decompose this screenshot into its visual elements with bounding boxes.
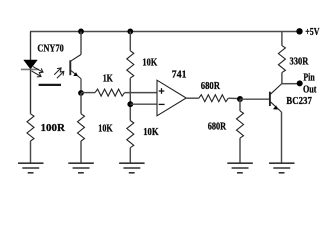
reflective surface bar <box>39 84 61 86</box>
wire: rail to 10K top <box>129 32 131 51</box>
resistor 10K (bottom middle) <box>127 121 134 148</box>
op-amp U1 741 triangle <box>157 80 186 116</box>
LED emission arrow 2 <box>32 71 42 77</box>
wire: 1K to op-amp + input <box>125 92 157 94</box>
wire: LED cathode to 100R <box>30 69 32 113</box>
wire: to ground <box>80 141 82 163</box>
svg-text:680R: 680R <box>208 122 227 133</box>
svg-text:+5V: +5V <box>305 27 320 38</box>
wire: 10K top down through + crossing to - node <box>129 78 131 120</box>
node: +5V terminal dot <box>296 28 302 34</box>
svg-text:10K: 10K <box>143 127 159 138</box>
svg-text:Pin: Pin <box>303 73 314 84</box>
wire: node to 680R shunt <box>239 99 241 111</box>
ground G2 <box>68 163 94 173</box>
ground G5 <box>269 163 295 173</box>
wire: node to BC237 base <box>240 98 269 100</box>
wire: pin out stub <box>282 83 297 85</box>
node: emitter junction <box>78 90 84 96</box>
wire: +5V top rail <box>30 31 299 33</box>
resistor 100R <box>27 114 34 141</box>
wire: rail to 330R <box>281 32 283 46</box>
svg-text:741: 741 <box>172 70 187 81</box>
svg-text:10K: 10K <box>142 57 158 68</box>
svg-text:100R: 100R <box>41 123 66 134</box>
svg-text:330R: 330R <box>290 56 309 67</box>
LED of CNY70 (emitter diode) <box>24 60 38 69</box>
wire: to ground <box>129 148 131 163</box>
wire: 1K row from emitter junction <box>81 92 95 94</box>
LED emission arrow 1 <box>33 67 43 73</box>
wire: collector drop <box>80 32 82 55</box>
ground G1 <box>18 163 44 173</box>
Q2 emitter arrowhead <box>273 105 278 109</box>
svg-text:1K: 1K <box>103 74 114 85</box>
light arrow 2 into Q1 <box>57 71 64 78</box>
node: Pin Out terminal dot <box>297 80 303 86</box>
node: divider junction <box>237 96 243 102</box>
svg-text:BC237: BC237 <box>286 96 312 107</box>
wire: 330R to collector tee <box>281 73 283 84</box>
node: rail junction to 10K top <box>127 29 133 35</box>
transistor Q2 BC237 <box>270 84 282 112</box>
resistor 330R <box>278 46 285 73</box>
svg-text:10K: 10K <box>98 123 113 134</box>
wire: 100R to ground <box>30 141 32 163</box>
op-amp - input sign <box>159 103 165 105</box>
LED cathode bar <box>21 68 39 70</box>
resistor 680R (series) <box>199 95 229 102</box>
light arrow 1 into Q1 <box>54 68 61 75</box>
svg-text:Out: Out <box>303 84 317 95</box>
node: rail junction to phototransistor <box>78 29 84 35</box>
svg-text:680R: 680R <box>201 81 221 92</box>
wire: op-amp output <box>186 97 199 99</box>
phototransistor Q1 of CNY70 <box>70 55 81 94</box>
resistor 10K (top) <box>127 51 134 78</box>
svg-text:CNY70: CNY70 <box>37 44 63 55</box>
node: inverting input junction <box>127 101 133 107</box>
wire: emitter junction to 10K lower-left <box>80 93 82 114</box>
wire: LED anode drop <box>30 32 32 61</box>
wire: - input <box>130 103 157 105</box>
ground G4 <box>227 163 253 173</box>
wire: emitter to ground <box>281 112 283 163</box>
Q1 emitter arrowhead <box>73 72 78 76</box>
resistor 10K (lower left) <box>78 114 85 141</box>
wire: to ground <box>239 138 241 163</box>
ground G3 <box>119 163 145 173</box>
resistor 1K <box>95 89 125 96</box>
wire: 680R to node <box>228 97 240 99</box>
op-amp + input sign <box>159 88 165 94</box>
resistor 680R (shunt) <box>237 111 244 138</box>
